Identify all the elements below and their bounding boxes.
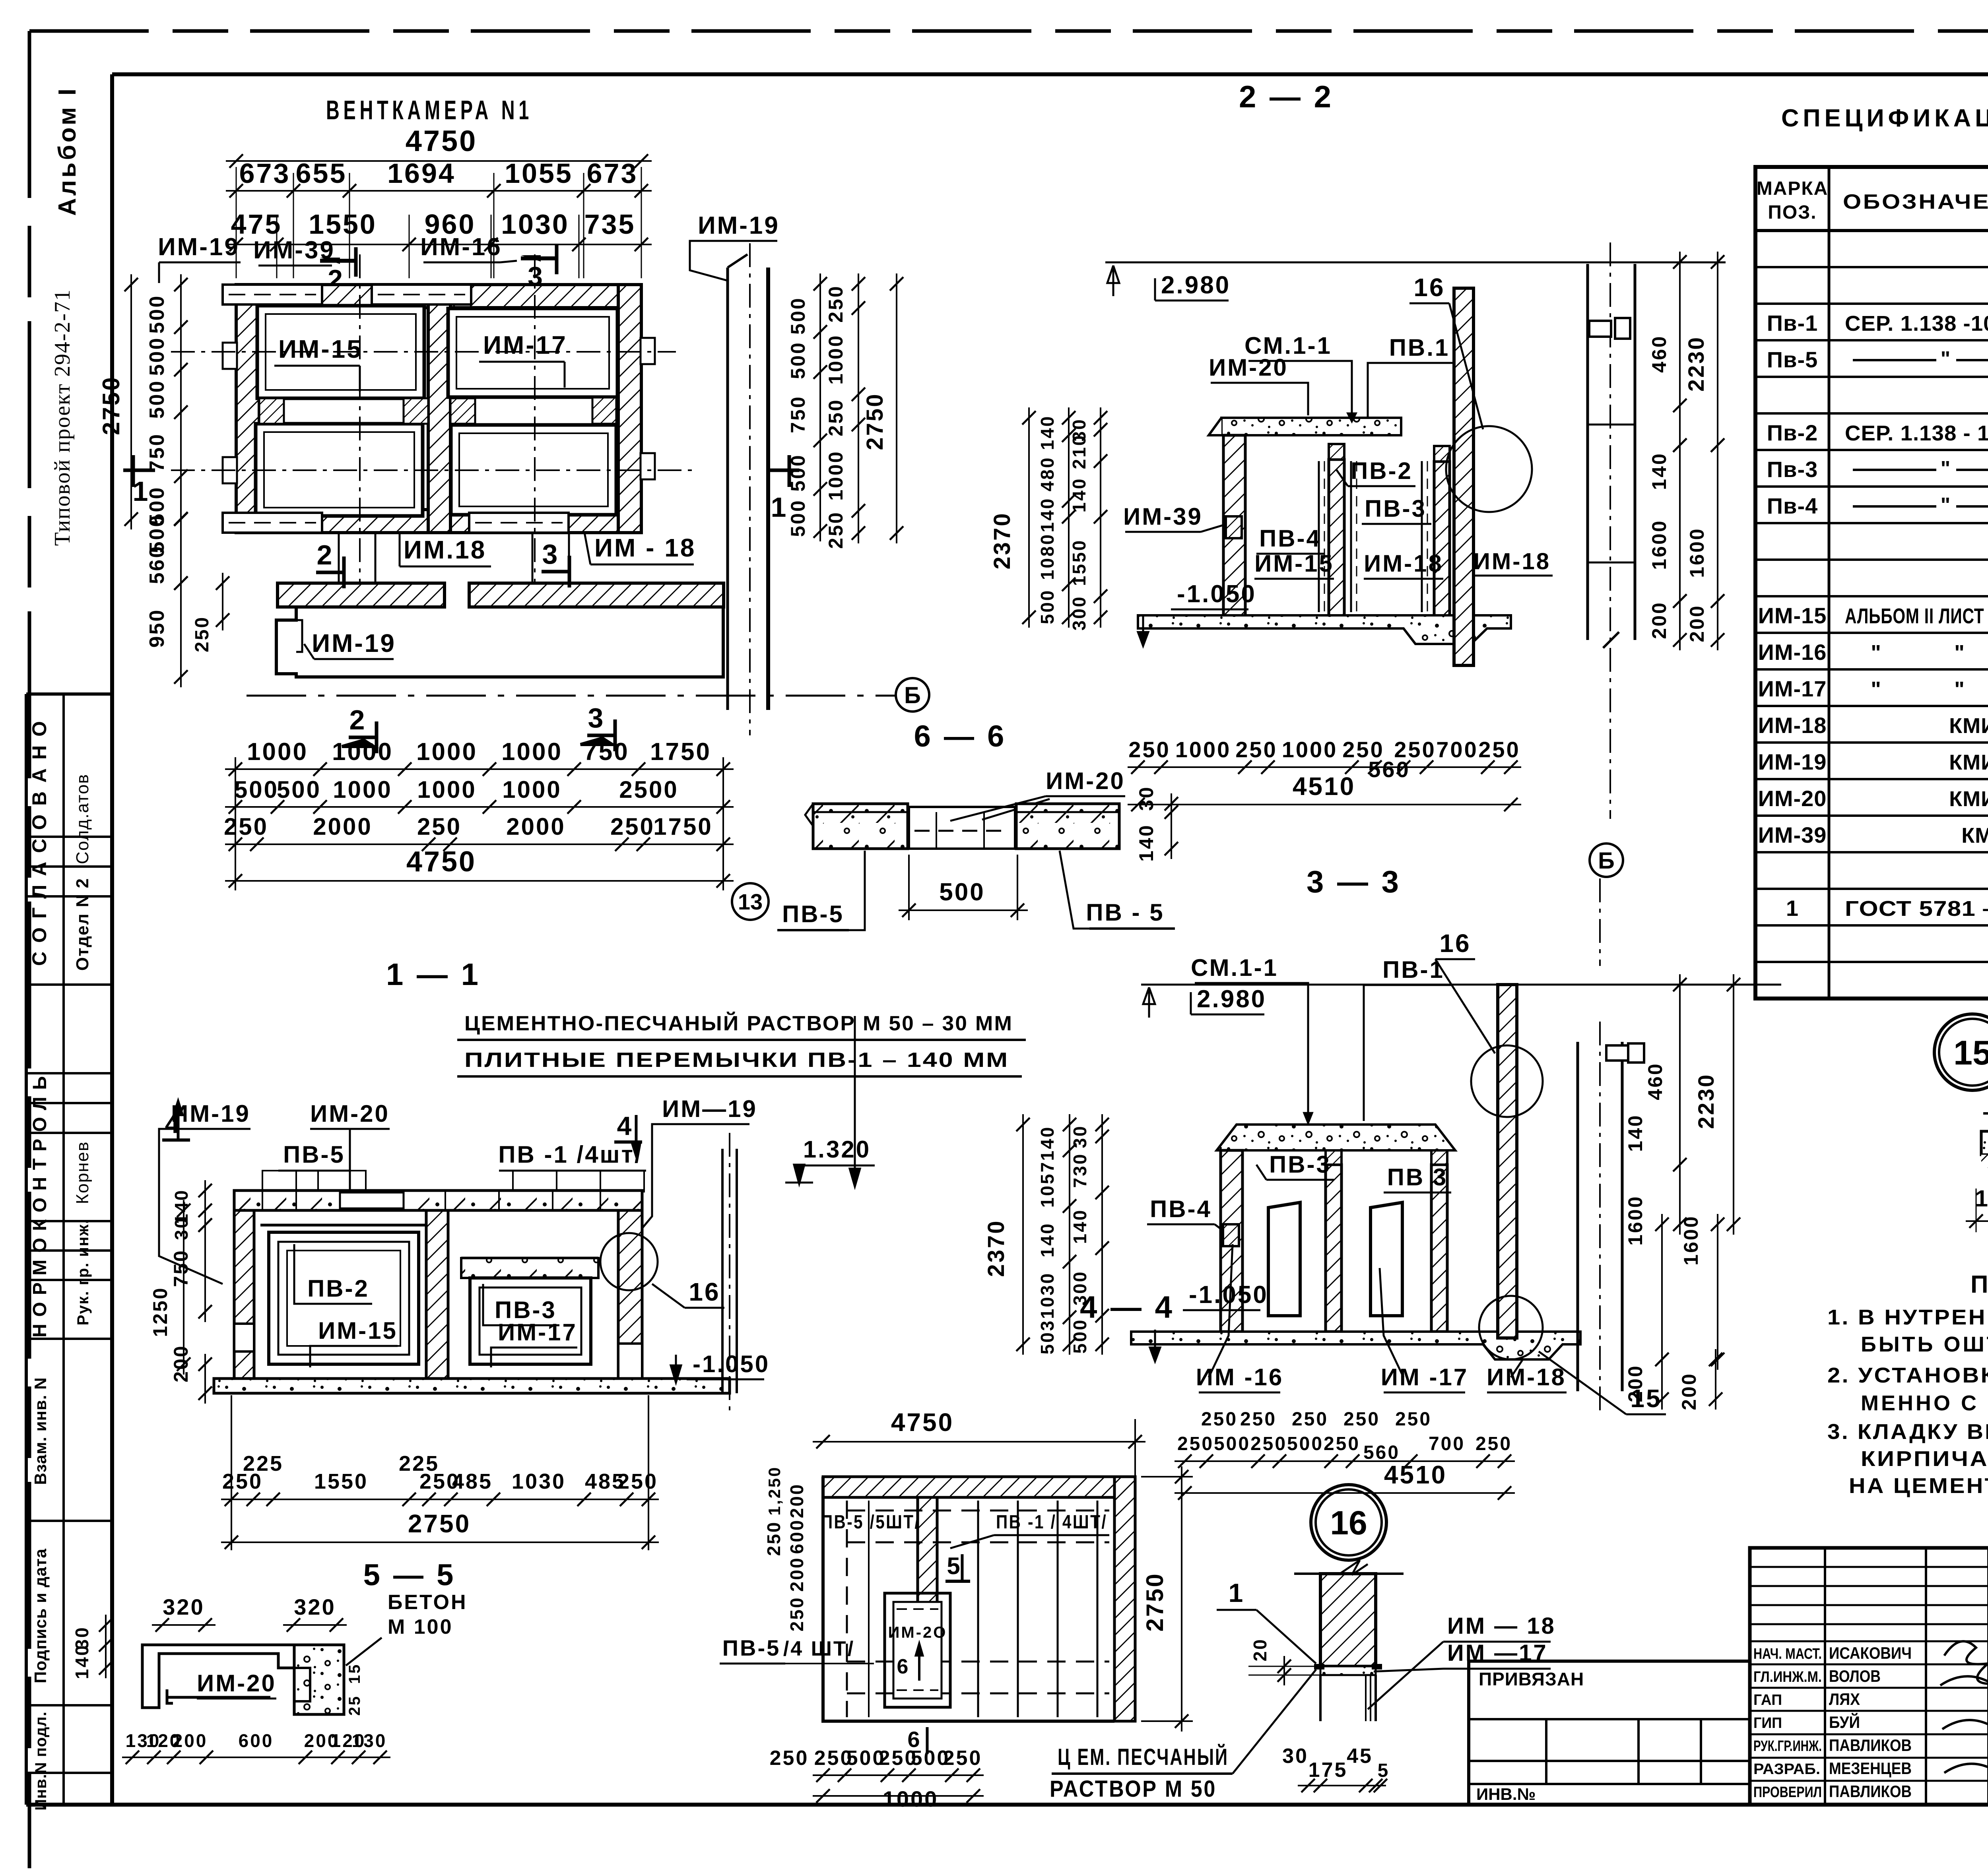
svg-text:СЕР. 1.138 -10 В. 2: СЕР. 1.138 -10 В. 2 xyxy=(1845,312,1988,335)
svg-text:16: 16 xyxy=(1330,1504,1367,1541)
svg-text:1550: 1550 xyxy=(1069,539,1089,586)
svg-text:500: 500 xyxy=(146,337,169,376)
svg-text:250: 250 xyxy=(1177,1433,1214,1454)
svg-text:С О Г Л А С О В А Н О: С О Г Л А С О В А Н О xyxy=(28,719,50,966)
svg-text:2.980: 2.980 xyxy=(1197,985,1266,1013)
plan central wall xyxy=(428,285,450,533)
svg-text:4750: 4750 xyxy=(891,1408,954,1437)
sheet outer dashed border top xyxy=(29,29,1988,33)
svg-text:750: 750 xyxy=(146,433,169,472)
svg-text:ИМ-19: ИМ-19 xyxy=(312,629,396,657)
svg-text:500: 500 xyxy=(1287,1433,1324,1454)
svg-text:1750: 1750 xyxy=(653,813,712,840)
svg-text:Типовой проект 294-2-71: Типовой проект 294-2-71 xyxy=(50,289,75,546)
svg-text:30: 30 xyxy=(1282,1745,1309,1768)
svg-text:МЕЗЕНЦЕВ: МЕЗЕНЦЕВ xyxy=(1829,1759,1912,1778)
svg-text:ИМ-18: ИМ-18 xyxy=(1487,1364,1566,1390)
detail 15 ground hatch xyxy=(1981,1155,1988,1187)
svg-text:500: 500 xyxy=(234,776,279,803)
svg-text:250: 250 xyxy=(825,511,847,549)
svg-text:1 — 1: 1 — 1 xyxy=(386,957,481,992)
right vertical channel walls xyxy=(726,268,729,710)
svg-text:2370: 2370 xyxy=(989,512,1015,569)
svg-text:Б: Б xyxy=(1598,848,1615,874)
svg-text:ИМ-19: ИМ-19 xyxy=(698,212,780,239)
svg-text:500: 500 xyxy=(787,454,809,491)
svg-text:16: 16 xyxy=(1413,273,1445,302)
svg-text:ИСАКОВИЧ: ИСАКОВИЧ xyxy=(1829,1644,1912,1662)
3-3 door leaf right xyxy=(1371,1202,1402,1316)
svg-text:ПЛИТНЫЕ ПЕРЕМЫЧКИ ПВ-1: ПЛИТНЫЕ ПЕРЕМЫЧКИ ПВ-1 – 140 ММ xyxy=(464,1049,1009,1072)
svg-text:1600: 1600 xyxy=(1686,527,1708,578)
duct inner step lines xyxy=(276,620,302,652)
svg-text:1694: 1694 xyxy=(387,158,456,189)
detail 15 circle xyxy=(1934,1014,1988,1090)
svg-text:4: 4 xyxy=(617,1111,633,1140)
svg-text:ИМ-17: ИМ-17 xyxy=(498,1319,577,1346)
svg-text:250: 250 xyxy=(224,813,268,840)
svg-text:250: 250 xyxy=(1475,1433,1512,1454)
svg-text:2: 2 xyxy=(317,539,334,570)
plan mid-band hatched stubs xyxy=(259,398,284,424)
plan louver opening bottom-right xyxy=(451,425,616,515)
svg-text:КМИ 15: КМИ 15 xyxy=(1949,750,1988,774)
svg-text:1.320: 1.320 xyxy=(803,1136,871,1163)
svg-text:ИМ-2О: ИМ-2О xyxy=(888,1624,947,1641)
svg-text:МЕННО С КЛАДКОЙ.: МЕННО С КЛАДКОЙ. xyxy=(1861,1391,1988,1415)
svg-text:250: 250 xyxy=(1394,737,1436,762)
svg-text:1250: 1250 xyxy=(149,1286,171,1337)
svg-text:МАРКА: МАРКА xyxy=(1757,178,1829,199)
5-5 left angle piece xyxy=(142,1645,294,1708)
spec table outer rect xyxy=(1755,167,1988,999)
svg-text:200: 200 xyxy=(173,1730,208,1751)
svg-text:ИМ-20: ИМ-20 xyxy=(1209,354,1288,381)
svg-text:16: 16 xyxy=(1439,929,1471,958)
svg-text:ГАП: ГАП xyxy=(1753,1692,1782,1708)
svg-text:ПВ -1 /4шт/: ПВ -1 /4шт/ xyxy=(498,1141,643,1168)
circle Б xyxy=(896,678,929,712)
svg-text:3: 3 xyxy=(542,539,559,570)
svg-text:700: 700 xyxy=(1429,1433,1465,1454)
svg-text:Корнев: Корнев xyxy=(73,1141,92,1204)
svg-text:-1.050: -1.050 xyxy=(1177,580,1256,608)
1-1 top slab xyxy=(234,1191,642,1210)
svg-text:ВЕНТКАМЕРА N1: ВЕНТКАМЕРА N1 xyxy=(326,95,533,125)
svg-text:АЛЬБОМ II ЛИСТ КМИ13: АЛЬБОМ II ЛИСТ КМИ13 xyxy=(1845,604,1988,628)
svg-text:2500: 2500 xyxy=(619,776,678,803)
plan louver opening ИМ-17 (top-right) xyxy=(448,308,617,397)
svg-text:485: 485 xyxy=(452,1470,493,1493)
svg-text:250: 250 xyxy=(825,398,847,436)
plan louver opening ИМ-15 (top-left) xyxy=(257,306,424,398)
spec table rows xyxy=(1755,266,1988,268)
left stamp column box xyxy=(25,694,28,1805)
3-3 middle wall xyxy=(1326,1165,1342,1332)
svg-text:ПАВЛИКОВ: ПАВЛИКОВ xyxy=(1829,1736,1912,1755)
svg-text:1000: 1000 xyxy=(883,1786,939,1811)
svg-text:Б: Б xyxy=(904,683,921,708)
svg-text:200: 200 xyxy=(1686,604,1708,642)
2-2 tall pier xyxy=(1454,288,1474,665)
1-1 central wall xyxy=(426,1210,448,1379)
svg-text:1055: 1055 xyxy=(505,158,573,189)
svg-text:45: 45 xyxy=(1347,1745,1373,1768)
svg-text:1000: 1000 xyxy=(825,450,847,500)
svg-text:3. КЛАДКУ ВЕСТИ ИЗ ОБЫКНОВЕ: 3. КЛАДКУ ВЕСТИ ИЗ ОБЫКНОВЕННОГО ГЛИНЯНО… xyxy=(1827,1420,1988,1444)
wall below xyxy=(1319,1675,1322,1721)
svg-text:500: 500 xyxy=(787,499,809,537)
circle 13 xyxy=(732,883,769,920)
svg-text:ИМ-19: ИМ-19 xyxy=(1758,749,1827,774)
svg-text:ЛЯХ: ЛЯХ xyxy=(1829,1690,1860,1708)
svg-text:250: 250 xyxy=(786,1596,807,1632)
svg-text:500: 500 xyxy=(787,341,809,379)
svg-text:200: 200 xyxy=(1624,1364,1646,1402)
plan wall notches xyxy=(223,343,237,369)
svg-text:ПВ-5 /5ШТ/: ПВ-5 /5ШТ/ xyxy=(821,1512,920,1533)
svg-text:ИМ-20: ИМ-20 xyxy=(197,1670,276,1697)
svg-text:2. УСТАНОВКУ „ИМ" ПРОИЗВОД: 2. УСТАНОВКУ „ИМ" ПРОИЗВОДИТЬ ОДНОВРЕ- xyxy=(1827,1363,1988,1387)
svg-text:200: 200 xyxy=(170,1344,192,1382)
section mark 1 left xyxy=(123,469,155,472)
svg-text:140: 140 xyxy=(1037,415,1058,450)
svg-text:ИМ-20: ИМ-20 xyxy=(1758,786,1827,811)
2-2 middle wall xyxy=(1329,460,1344,617)
svg-text:ПРИВЯЗАН: ПРИВЯЗАН xyxy=(1479,1669,1584,1689)
svg-text:": " xyxy=(1871,677,1883,701)
svg-text:Инв.N подл.: Инв.N подл. xyxy=(32,1711,50,1811)
svg-text:ИМ.18: ИМ.18 xyxy=(404,535,486,564)
svg-text:250: 250 xyxy=(1478,737,1520,762)
svg-text:ИМ-18: ИМ-18 xyxy=(1474,549,1551,574)
title block personnel table xyxy=(1750,1548,1988,1805)
svg-text:1030: 1030 xyxy=(1037,1272,1058,1319)
svg-text:735: 735 xyxy=(584,209,636,240)
6-6 middle dashed box xyxy=(909,807,1015,849)
svg-text:130: 130 xyxy=(352,1730,387,1751)
svg-text:ПВ-5: ПВ-5 xyxy=(283,1141,345,1168)
svg-text:250: 250 xyxy=(610,813,655,840)
svg-text:500: 500 xyxy=(1037,589,1058,624)
plan dim extension lines xyxy=(236,167,237,278)
svg-text:1: 1 xyxy=(771,492,788,523)
svg-text:СЕР. 1.138 - 10 В.1: СЕР. 1.138 - 10 В.1 xyxy=(1845,421,1988,445)
svg-text:30: 30 xyxy=(1070,1125,1090,1148)
svg-text:500: 500 xyxy=(787,297,809,334)
svg-text:ПВ -1 / 4ШТ/: ПВ -1 / 4ШТ/ xyxy=(996,1512,1107,1533)
svg-text:2750: 2750 xyxy=(862,392,888,450)
svg-text:ГЛ.ИНЖ.М.: ГЛ.ИНЖ.М. xyxy=(1753,1669,1822,1685)
signatures scribble xyxy=(1940,1641,1988,1789)
3-3 Пв-4 box on left wall xyxy=(1223,1224,1239,1246)
svg-text:ПВ-5: ПВ-5 xyxy=(782,901,844,927)
svg-text:2000: 2000 xyxy=(506,813,565,840)
svg-text:1550: 1550 xyxy=(314,1470,368,1493)
svg-text:1000: 1000 xyxy=(332,738,393,766)
svg-text:БЕТОН: БЕТОН xyxy=(388,1591,468,1614)
svg-text:500: 500 xyxy=(1214,1433,1250,1454)
svg-text:ИМ-15: ИМ-15 xyxy=(1254,550,1334,577)
svg-text:140: 140 xyxy=(1069,477,1089,513)
svg-text:250: 250 xyxy=(417,813,462,840)
svg-text:2750: 2750 xyxy=(1142,1572,1168,1631)
svg-text:СМ.1-1: СМ.1-1 xyxy=(1191,954,1278,981)
svg-text:/4 ШТ/: /4 ШТ/ xyxy=(783,1637,855,1660)
svg-text:М 100: М 100 xyxy=(388,1615,453,1638)
svg-text:ПАВЛИКОВ: ПАВЛИКОВ xyxy=(1829,1782,1912,1801)
svg-text:750: 750 xyxy=(583,738,629,766)
svg-text:4510: 4510 xyxy=(1293,772,1355,801)
svg-text:1: 1 xyxy=(1229,1578,1245,1607)
1-1 floor xyxy=(214,1379,730,1393)
elevation 2.980 (3-3) xyxy=(1141,984,1781,986)
svg-text:600: 600 xyxy=(786,1519,807,1554)
svg-text:1600: 1600 xyxy=(1648,519,1670,570)
svg-text:600: 600 xyxy=(239,1730,274,1751)
svg-text:250: 250 xyxy=(1235,737,1277,762)
svg-text:ПРОВЕРИЛ: ПРОВЕРИЛ xyxy=(1753,1784,1822,1801)
svg-text:КМИ 16: КМИ 16 xyxy=(1949,787,1988,811)
svg-text:ГОСТ 5781 — 81: ГОСТ 5781 — 81 xyxy=(1845,897,1988,921)
svg-text:ИМ-15: ИМ-15 xyxy=(318,1317,398,1344)
4-4 dashed plank edges xyxy=(847,1510,1109,1512)
3-3 top slab xyxy=(1217,1125,1455,1150)
svg-text:460: 460 xyxy=(1648,335,1670,372)
svg-text:ИМ-15: ИМ-15 xyxy=(278,335,363,363)
3-3 left wall xyxy=(1221,1150,1242,1332)
svg-text:ИМ-18: ИМ-18 xyxy=(1364,550,1443,577)
svg-text:3: 3 xyxy=(588,702,605,733)
svg-text:Альбом I: Альбом I xyxy=(54,86,81,216)
svg-text:560: 560 xyxy=(146,545,169,584)
svg-text:Подпись и дата: Подпись и дата xyxy=(31,1548,50,1683)
svg-text:200: 200 xyxy=(786,1557,807,1592)
svg-text:ПВ-4: ПВ-4 xyxy=(1259,525,1321,552)
svg-text:250: 250 xyxy=(763,1521,784,1556)
duct channels below plan xyxy=(338,533,340,583)
svg-text:1000: 1000 xyxy=(417,776,476,803)
svg-text:15: 15 xyxy=(1953,1034,1988,1072)
2-2 detail circle on pier xyxy=(1446,426,1532,512)
svg-text:1000: 1000 xyxy=(502,776,561,803)
svg-text:15: 15 xyxy=(346,1663,363,1684)
svg-text:4510: 4510 xyxy=(1384,1460,1447,1489)
svg-text:950: 950 xyxy=(146,609,169,648)
svg-text:ПВ-3: ПВ-3 xyxy=(1269,1151,1331,1178)
svg-text:ПВ-2: ПВ-2 xyxy=(307,1275,369,1302)
svg-text:ИМ - 18: ИМ - 18 xyxy=(594,533,696,562)
svg-text:2230: 2230 xyxy=(1683,336,1708,392)
svg-text:ГИП: ГИП xyxy=(1753,1715,1782,1732)
1-1 left wall xyxy=(234,1210,254,1379)
svg-text:ИМ — 18: ИМ — 18 xyxy=(1447,1613,1556,1639)
svg-text:6: 6 xyxy=(897,1655,910,1678)
svg-text:1,250: 1,250 xyxy=(765,1466,784,1515)
svg-text:Ц ЕМ. ПЕСЧАНЫЙ: Ц ЕМ. ПЕСЧАНЫЙ xyxy=(1058,1744,1229,1770)
channel axis dash-dot xyxy=(749,243,751,735)
svg-text:2750: 2750 xyxy=(98,376,124,435)
svg-text:1057: 1057 xyxy=(1037,1161,1058,1208)
1-1 circle 16 xyxy=(600,1233,658,1290)
svg-text:ПВ - 5: ПВ - 5 xyxy=(1086,899,1164,926)
svg-text:250: 250 xyxy=(1343,1409,1380,1430)
svg-text:673: 673 xyxy=(587,158,638,189)
axis line to circle Б xyxy=(247,695,896,697)
svg-text:Пв-3: Пв-3 xyxy=(1767,457,1818,482)
svg-text:250: 250 xyxy=(1250,1433,1287,1454)
svg-text:210: 210 xyxy=(1069,434,1089,469)
svg-text:ИМ-20: ИМ-20 xyxy=(310,1100,390,1127)
svg-text:140: 140 xyxy=(1037,1222,1058,1258)
3-3 right chamber wall xyxy=(1431,1165,1447,1332)
svg-text:Пв-1: Пв-1 xyxy=(1767,310,1818,335)
detail 15 floor slab lines xyxy=(1983,1112,1988,1115)
svg-text:НАЧ. МАСТ.: НАЧ. МАСТ. xyxy=(1753,1646,1822,1662)
inner frame top line xyxy=(112,72,1988,76)
svg-text:": " xyxy=(1871,641,1883,665)
svg-text:": " xyxy=(1954,677,1966,701)
Привязан box xyxy=(1469,1661,1750,1805)
svg-text:3 — 3: 3 — 3 xyxy=(1307,864,1401,899)
svg-text:ПВ 3: ПВ 3 xyxy=(1387,1164,1448,1191)
svg-text:250: 250 xyxy=(1201,1409,1238,1430)
svg-text:ИМ-39: ИМ-39 xyxy=(1123,503,1203,530)
4-4 inner partition hatched xyxy=(918,1497,937,1617)
svg-text:5: 5 xyxy=(947,1553,961,1579)
svg-text:30: 30 xyxy=(171,1216,192,1240)
elevation 2.980 (2-2) xyxy=(1105,262,1726,264)
spec table column lines xyxy=(1828,167,1831,999)
svg-text:25: 25 xyxy=(346,1695,363,1716)
svg-text:250: 250 xyxy=(1240,1409,1277,1430)
svg-text:200: 200 xyxy=(786,1483,807,1518)
4-4 interior plank lines xyxy=(977,1501,979,1717)
svg-text:1000: 1000 xyxy=(1282,737,1338,762)
svg-text:200: 200 xyxy=(1678,1372,1700,1410)
svg-text:1000: 1000 xyxy=(247,738,308,766)
svg-text:1000: 1000 xyxy=(1175,737,1231,762)
svg-text:ИМ-17: ИМ-17 xyxy=(483,331,567,359)
svg-text:1: 1 xyxy=(1786,896,1799,921)
svg-text:Рук. гр. инж.: Рук. гр. инж. xyxy=(74,1219,92,1326)
section mark 1 right xyxy=(767,469,799,472)
3-3 detail circles on pier xyxy=(1471,1045,1543,1117)
svg-text:225: 225 xyxy=(243,1452,283,1476)
svg-text:КМИ 15: КМИ 15 xyxy=(1949,714,1988,738)
svg-text:Пв-2: Пв-2 xyxy=(1767,420,1818,445)
svg-text:250: 250 xyxy=(1128,737,1170,762)
svg-text:Н О Р М О К О Н Т Р О Л Ь: Н О Р М О К О Н Т Р О Л Ь xyxy=(29,1075,50,1338)
svg-text:320: 320 xyxy=(163,1594,204,1619)
4-4 bottom-left opening box xyxy=(885,1593,950,1707)
plan slot bottom dashed xyxy=(223,513,322,533)
svg-text:16: 16 xyxy=(689,1278,720,1306)
plan outer walls hatched xyxy=(236,285,641,308)
svg-text:1030: 1030 xyxy=(501,209,569,240)
svg-text:503: 503 xyxy=(1037,1319,1058,1355)
svg-text:1000: 1000 xyxy=(825,334,847,384)
2-2 top slab xyxy=(1221,418,1401,435)
2-2 left wall xyxy=(1223,435,1245,617)
svg-text:500: 500 xyxy=(146,295,169,334)
svg-text:1080: 1080 xyxy=(1037,533,1058,580)
1-1 right wall xyxy=(618,1210,642,1379)
detail 15 concrete pad xyxy=(1981,1131,1988,1173)
svg-text:100: 100 xyxy=(1975,1186,1988,1212)
inner frame left line xyxy=(110,74,114,1805)
svg-text:ПВ-3: ПВ-3 xyxy=(1365,495,1427,522)
circle 16 (column detail) xyxy=(1311,1485,1386,1560)
3-3 floor slab xyxy=(1131,1332,1580,1359)
svg-text:КИРПИЧА ПОЛУСУХОГО ПРЕССО: КИРПИЧА ПОЛУСУХОГО ПРЕССОВАНИЯ М 75. xyxy=(1861,1447,1988,1471)
svg-text:": " xyxy=(1941,494,1952,517)
svg-text:ИМ-39: ИМ-39 xyxy=(1758,822,1827,847)
svg-text:480: 480 xyxy=(1037,456,1058,492)
svg-text:250: 250 xyxy=(770,1747,809,1770)
svg-text:1030: 1030 xyxy=(512,1470,566,1493)
extension verticals for plan dims xyxy=(235,757,236,890)
svg-text:500: 500 xyxy=(146,380,169,419)
svg-text:ИМ-20: ИМ-20 xyxy=(1046,768,1125,794)
svg-text:140: 140 xyxy=(1037,497,1058,533)
sheet outer dashed border left xyxy=(28,31,31,1868)
svg-text:1750: 1750 xyxy=(650,738,711,766)
svg-text:1550: 1550 xyxy=(309,209,377,240)
svg-text:-1.050: -1.050 xyxy=(693,1351,770,1377)
svg-text:2230: 2230 xyxy=(1693,1073,1718,1129)
svg-text:750: 750 xyxy=(787,395,809,433)
2-2 ИМ-39 box on left wall xyxy=(1226,516,1242,538)
svg-text:ИМ-18: ИМ-18 xyxy=(1758,713,1827,738)
svg-text:200: 200 xyxy=(1648,601,1670,639)
svg-text:250: 250 xyxy=(192,616,213,652)
svg-text:ОБОЗНАЧЕНИЕ: ОБОЗНАЧЕНИЕ xyxy=(1843,190,1988,213)
6-6 slab left part xyxy=(813,804,908,849)
svg-text:4750: 4750 xyxy=(406,846,476,878)
svg-text:4750: 4750 xyxy=(406,124,478,157)
3-3 door leaf left xyxy=(1268,1202,1300,1316)
base plate xyxy=(1320,1666,1376,1675)
lower duct channel outline xyxy=(278,583,445,607)
plan slot top-right dashed xyxy=(372,285,471,304)
svg-text:1000: 1000 xyxy=(416,738,478,766)
svg-text:Отдел N 2: Отдел N 2 xyxy=(73,878,92,971)
svg-text:1600: 1600 xyxy=(1624,1195,1646,1245)
5-5 right concrete piece xyxy=(294,1645,344,1714)
1-1 louver box ИМ-17 xyxy=(461,1257,598,1260)
svg-text:НА ЦЕМЕНТНО-ПЕСЧАНОМ РАСТВОРЕ: НА ЦЕМЕНТНО-ПЕСЧАНОМ РАСТВОРЕ М 25. xyxy=(1849,1474,1988,1498)
svg-text:30: 30 xyxy=(72,1626,92,1649)
svg-text:13: 13 xyxy=(738,889,763,914)
svg-text:140: 140 xyxy=(1135,824,1157,861)
svg-text:БЫТЬ ОШТУКАТУРЕНЫ.: БЫТЬ ОШТУКАТУРЕНЫ. xyxy=(1861,1332,1988,1356)
svg-text:655: 655 xyxy=(296,158,347,189)
svg-text:П Р И М Е Ч А Н И Я :: П Р И М Е Ч А Н И Я : xyxy=(1971,1271,1988,1298)
plan axis dash-dot lines xyxy=(171,351,676,353)
svg-text:175: 175 xyxy=(1309,1759,1348,1782)
svg-text:250: 250 xyxy=(825,285,847,322)
svg-text:6 — 6: 6 — 6 xyxy=(914,719,1007,753)
3-3 right axis double wall xyxy=(1576,1042,1579,1391)
svg-text:673: 673 xyxy=(239,158,291,189)
svg-text:ПВ-5: ПВ-5 xyxy=(722,1635,780,1660)
svg-text:РАСТВОР М 50: РАСТВОР М 50 xyxy=(1050,1776,1217,1802)
svg-text:ИНВ.№: ИНВ.№ xyxy=(1476,1785,1536,1803)
svg-text:КМИ 5: КМИ 5 xyxy=(1961,824,1988,847)
1-1 right axis wall xyxy=(721,1149,724,1393)
svg-text:730: 730 xyxy=(1070,1153,1090,1188)
